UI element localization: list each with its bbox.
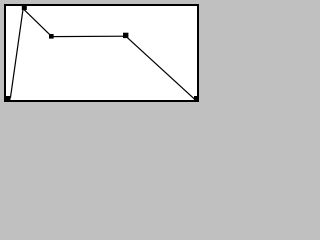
wire segment V3-V4: [51, 35, 126, 37]
canvas frame: [5, 5, 198, 101]
wire segment V1-V2: [10, 8, 23, 98]
node V3 handle: [49, 34, 54, 39]
wire segment V4-V5: [127, 37, 196, 100]
node V2 handle: [22, 5, 27, 10]
node V5 handle: [194, 96, 199, 101]
wire segment V2-V3: [24, 10, 52, 37]
node V1 handle: [6, 96, 11, 101]
node V4 handle: [123, 33, 128, 38]
curve editor widget: [0, 0, 204, 108]
